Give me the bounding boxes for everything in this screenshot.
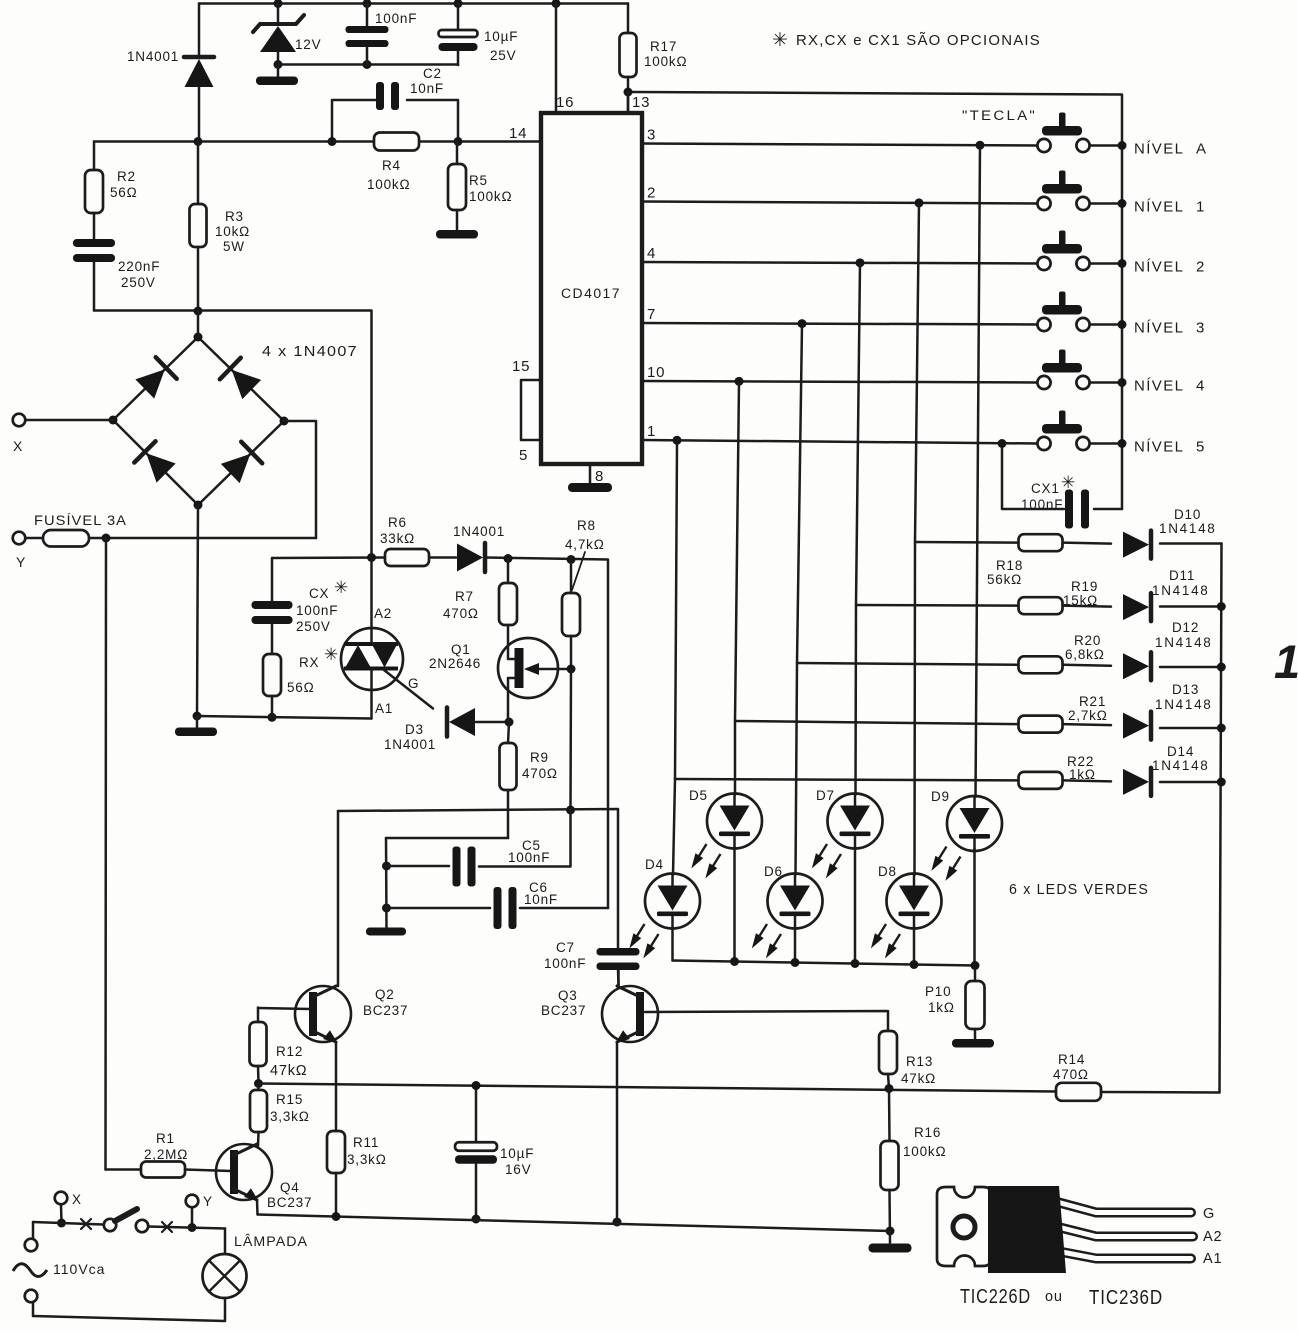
svg-text:100nF: 100nF — [508, 850, 550, 865]
wire lamp bottom return — [33, 1316, 225, 1321]
resistor R19 15kΩ — [1019, 597, 1063, 614]
svg-text:D4: D4 — [645, 857, 664, 872]
capacitor 10uF 16V electrolytic — [455, 1086, 497, 1220]
junction dot zener top — [274, 0, 283, 8]
svg-text:R19: R19 — [1071, 579, 1098, 594]
diode D13 1N4148 — [1123, 712, 1151, 740]
wire key 4 to bus — [1090, 381, 1122, 384]
diode 1N4001 series (phase) — [457, 543, 608, 908]
svg-text:470Ω: 470Ω — [522, 766, 558, 781]
svg-text:100kΩ: 100kΩ — [903, 1144, 946, 1159]
svg-text:2,7kΩ: 2,7kΩ — [1068, 708, 1108, 723]
svg-text:56Ω: 56Ω — [110, 185, 138, 200]
svg-text:NÍVEL: NÍVEL — [1134, 141, 1184, 158]
junction dot Q3 emitter bus — [613, 1218, 622, 1227]
wire Y lamp lead — [191, 1207, 194, 1227]
svg-text:5: 5 — [519, 447, 528, 464]
junction dot zener bottom — [274, 60, 283, 69]
svg-text:3,3kΩ: 3,3kΩ — [347, 1152, 387, 1167]
junction dot C5 right / emitter — [566, 806, 575, 815]
wire X lamp to switch line — [60, 1204, 63, 1223]
transistor Q3 BC237 — [602, 986, 658, 1048]
svg-text:R14: R14 — [1058, 1052, 1085, 1067]
junction dot key 4 bus — [1118, 378, 1127, 387]
svg-text:56kΩ: 56kΩ — [987, 572, 1022, 587]
svg-text:3: 3 — [1196, 320, 1205, 337]
junction dot bridge column top — [194, 307, 203, 316]
AC source 110Vca terminals — [25, 1222, 38, 1316]
capacitor C7 100nF — [597, 948, 640, 985]
junction dot pin 1 column — [673, 436, 682, 445]
svg-text:1N4001: 1N4001 — [127, 49, 179, 64]
junction dot bus D7 — [851, 959, 860, 968]
svg-text:R3: R3 — [225, 209, 244, 224]
wire C5 C6 left column — [386, 837, 508, 840]
svg-text:D11: D11 — [1169, 568, 1195, 583]
svg-text:CX: CX — [309, 586, 329, 601]
wire column pin4/D7 — [856, 264, 861, 796]
svg-text:4,7kΩ: 4,7kΩ — [565, 537, 605, 552]
svg-text:BC237: BC237 — [541, 1003, 586, 1018]
transistor Q4 BC237 — [216, 1144, 272, 1206]
TRIAC package TIC226D — [937, 1186, 1193, 1273]
svg-text:16: 16 — [556, 94, 574, 111]
wire bias line (R12/R15 to R14) — [259, 1084, 1057, 1092]
diode 1N4001 (left rectifier to supply) — [184, 4, 214, 140]
LED D5 green — [687, 794, 762, 881]
svg-text:14: 14 — [509, 125, 527, 142]
svg-text:✳: ✳ — [324, 645, 338, 664]
svg-text:CX1: CX1 — [1031, 481, 1060, 496]
svg-text:D12: D12 — [1172, 620, 1199, 635]
svg-text:R4: R4 — [382, 158, 401, 173]
wire X to bridge — [25, 419, 113, 422]
wire Q3 base to R13 — [645, 1011, 888, 1031]
resistor R17 100k — [620, 4, 637, 114]
pushbutton key NIVEL 2 — [1037, 231, 1089, 271]
wire emitter column down — [569, 669, 572, 810]
wire column pin7/D6 LED to bus — [794, 927, 797, 963]
svg-text:100nF: 100nF — [296, 603, 338, 618]
svg-text:R5: R5 — [469, 173, 488, 188]
ground below zener — [256, 65, 298, 86]
junction dot pin 2 column — [915, 198, 924, 207]
svg-text:1N4148: 1N4148 — [1155, 635, 1213, 650]
svg-text:A: A — [1196, 141, 1207, 158]
svg-text:10: 10 — [647, 364, 665, 381]
svg-text:Y: Y — [203, 1194, 213, 1209]
resistor R7 470 — [499, 559, 517, 626]
svg-text:220nF: 220nF — [118, 259, 160, 274]
svg-text:1kΩ: 1kΩ — [1069, 767, 1096, 782]
wire column pin7/D6 — [796, 325, 803, 876]
svg-text:2N2646: 2N2646 — [429, 656, 481, 671]
svg-text:1N4148: 1N4148 — [1152, 583, 1210, 598]
note RX CX CX1 optional — [772, 30, 1041, 51]
svg-text:8: 8 — [595, 468, 604, 485]
junction dot bus D9/P10 — [971, 961, 980, 970]
svg-text:2: 2 — [1196, 259, 1205, 276]
junction dot C2 right — [454, 137, 463, 146]
svg-text:R17: R17 — [650, 39, 677, 54]
capacitor 100nF (supply filter) — [346, 4, 389, 65]
svg-text:✳: ✳ — [772, 30, 788, 51]
fuse FUSIVEL 3A — [25, 530, 316, 547]
junction dot R16 bus — [886, 1227, 895, 1236]
wire Q2 emitter to R11 — [335, 1042, 338, 1131]
junction dot pin 3 column — [976, 141, 985, 150]
svg-text:470Ω: 470Ω — [1053, 1067, 1089, 1082]
junction dot R8 top — [567, 555, 576, 564]
junction dot key 5 bus — [1118, 439, 1127, 448]
junction dot Y switch — [188, 1223, 197, 1232]
wire pin 16 — [555, 4, 558, 114]
junction dot 10uF bottom — [472, 1215, 481, 1224]
svg-text:FUSÍVEL 3A: FUSÍVEL 3A — [34, 512, 127, 528]
junction dot R12 R15 — [254, 1079, 263, 1088]
junction dot bus D6 — [791, 958, 800, 967]
svg-text:4: 4 — [1196, 378, 1205, 395]
svg-text:R8: R8 — [577, 518, 596, 533]
svg-text:5W: 5W — [223, 239, 245, 254]
wire bridge bottom column — [197, 505, 198, 716]
wire key 3 to bus — [1090, 323, 1122, 326]
svg-text:R9: R9 — [530, 750, 549, 765]
svg-text:1: 1 — [647, 423, 656, 440]
resistor R18 56kΩ — [1019, 534, 1063, 551]
pushbutton key NIVEL 1 — [1037, 171, 1089, 211]
wire right bus (diode cathodes to R14) — [1220, 544, 1222, 1093]
ground below R16 — [869, 1244, 912, 1253]
svg-text:CD4017: CD4017 — [561, 286, 621, 301]
svg-text:13: 13 — [632, 94, 650, 111]
svg-text:D6: D6 — [764, 864, 783, 879]
svg-text:1: 1 — [1196, 199, 1205, 216]
capacitor CX 100nF 250V (optional) — [252, 558, 293, 654]
svg-text:10µF: 10µF — [500, 1146, 534, 1161]
wire A1 line — [197, 716, 372, 719]
pushbutton key NIVEL 3 — [1037, 292, 1089, 332]
junction dot right bus — [1217, 663, 1226, 672]
ground below C5/C6 — [366, 928, 406, 936]
svg-text:100nF: 100nF — [375, 11, 417, 26]
wire R8 label pointer — [572, 552, 585, 590]
junction dot key A bus — [1118, 141, 1127, 150]
svg-text:1kΩ: 1kΩ — [928, 1000, 955, 1015]
svg-text:R21: R21 — [1079, 694, 1106, 709]
transistor Q1 2N2646 UJT — [498, 625, 570, 722]
wire column pin2/D8 LED to bus — [913, 927, 916, 965]
svg-text:A1: A1 — [375, 701, 393, 716]
resistor R5 100k — [448, 142, 466, 232]
svg-text:G: G — [1203, 1206, 1215, 1222]
wire Q3 emitter column — [616, 1042, 619, 1222]
svg-text:10nF: 10nF — [410, 81, 444, 96]
wire R18 row — [915, 541, 1018, 544]
svg-text:R18: R18 — [996, 558, 1023, 573]
junction dot right bus — [1217, 778, 1226, 787]
resistor R12 47k — [250, 1008, 267, 1084]
svg-text:6,8kΩ: 6,8kΩ — [1065, 647, 1105, 662]
wire column pin1/D4 — [673, 444, 677, 876]
resistor R15 3.3k — [250, 1084, 267, 1147]
resistor R4 100k — [374, 133, 419, 151]
junction dot bus D8 — [910, 960, 919, 969]
wire column pin3/D9 LED to bus — [973, 849, 976, 966]
wire main node line y142 (pin14 net) — [94, 140, 374, 143]
junction dot right bus — [1217, 724, 1226, 733]
svg-text:6 x LEDS VERDES: 6 x LEDS VERDES — [1009, 882, 1149, 898]
junction dot UJT emitter — [567, 665, 576, 674]
svg-text:Q1: Q1 — [451, 642, 471, 657]
svg-text:25V: 25V — [490, 48, 516, 63]
junction dot R4 line left — [194, 137, 203, 146]
bridge rectifier 4 x 1N4007 — [109, 333, 289, 510]
svg-text:47kΩ: 47kΩ — [270, 1063, 307, 1079]
svg-text:110Vca: 110Vca — [53, 1261, 105, 1277]
connection cross mark X — [81, 1219, 91, 1229]
svg-text:P10: P10 — [925, 984, 951, 999]
wire pin 7 to key NIVEL 3 — [642, 323, 1037, 325]
svg-text:X: X — [13, 438, 23, 454]
LED D6 green — [748, 874, 823, 961]
junction dot key 3 bus — [1118, 320, 1127, 329]
pushbutton key NIVEL A — [1037, 113, 1089, 153]
wire pin 10 to key NIVEL 4 — [642, 381, 1037, 383]
svg-text:Q2: Q2 — [375, 987, 395, 1002]
resistor R1 2.2M — [106, 1162, 232, 1178]
wire pin13 node to key bus — [628, 92, 1122, 509]
diode D12 1N4148 — [1123, 652, 1151, 680]
svg-text:D13: D13 — [1172, 682, 1199, 697]
wire column pin2/D8 — [915, 204, 920, 876]
wire pin 2 to key NIVEL 1 — [642, 202, 1037, 204]
wire key 1 to bus — [1090, 202, 1122, 205]
wire column pin3/D9 — [976, 146, 981, 798]
svg-text:100kΩ: 100kΩ — [644, 54, 687, 69]
resistor R11 3.3k — [327, 1131, 345, 1217]
wire emitter node line1 — [338, 809, 618, 949]
junction dot 10uF top — [454, 0, 463, 8]
svg-text:Q4: Q4 — [280, 1180, 300, 1195]
ground below R5 — [436, 230, 478, 239]
ground below bridge column — [175, 716, 217, 736]
svg-text:RX: RX — [299, 655, 319, 670]
terminal Y lamp side — [186, 1195, 199, 1208]
junction dot R9 top / B1 — [505, 718, 514, 727]
svg-text:BC237: BC237 — [363, 1003, 408, 1018]
svg-text:7: 7 — [647, 306, 656, 323]
IC U1 CD4017 outline — [541, 113, 642, 464]
junction dot pin13 — [624, 88, 633, 97]
svg-text:250V: 250V — [121, 275, 156, 290]
ground below P10 — [952, 1039, 994, 1048]
svg-text:ou: ou — [1045, 1289, 1063, 1305]
connection cross mark Y — [162, 1222, 172, 1232]
svg-text:100kΩ: 100kΩ — [469, 189, 512, 204]
pin15-pin5 jumper wire — [521, 380, 541, 440]
svg-text:R13: R13 — [906, 1054, 933, 1069]
svg-text:R12: R12 — [276, 1044, 303, 1059]
top supply rail wire — [199, 2, 628, 5]
wire pin13 stub to box — [627, 92, 630, 113]
terminal X lamp side — [55, 1192, 68, 1205]
svg-text:D3: D3 — [405, 722, 424, 737]
wire key A to bus — [1090, 144, 1122, 147]
diode D3 1N4001 (gate) — [447, 708, 509, 737]
ground below pin 8 — [568, 483, 612, 492]
svg-text:D8: D8 — [878, 864, 897, 879]
junction dot RX bottom A1 line — [268, 713, 277, 722]
wire column pin1/D4 LED to bus — [671, 927, 674, 961]
svg-text:D14: D14 — [1167, 744, 1194, 759]
resistor R8 4.7k — [562, 560, 580, 670]
pushbutton key NIVEL 4 — [1037, 350, 1089, 390]
capacitor C2 10nF — [332, 82, 458, 142]
svg-text:100nF: 100nF — [544, 956, 586, 971]
resistor R14 470 — [1056, 1083, 1101, 1101]
svg-text:D9: D9 — [931, 789, 950, 804]
wire bridge right vertex to fuse line — [284, 421, 316, 538]
trimpot P10 1k — [966, 966, 985, 1041]
svg-text:10nF: 10nF — [524, 892, 558, 907]
svg-text:2: 2 — [647, 185, 656, 202]
resistor R3 10k 5W — [190, 142, 207, 312]
svg-text:5: 5 — [1196, 439, 1205, 456]
svg-text:BC237: BC237 — [267, 1195, 312, 1210]
svg-text:A1: A1 — [1203, 1251, 1222, 1267]
triac (internal symbol) — [341, 558, 403, 719]
wire Q2 collector column — [337, 811, 340, 986]
wire R22 row — [675, 779, 1018, 780]
svg-text:1N4001: 1N4001 — [384, 737, 436, 752]
junction dot CX1 left — [998, 439, 1007, 448]
resistor R22 1kΩ — [1019, 772, 1063, 789]
svg-text:"TECLA": "TECLA" — [962, 108, 1037, 123]
svg-text:✳: ✳ — [1061, 473, 1075, 492]
svg-text:3,3kΩ: 3,3kΩ — [270, 1109, 310, 1124]
resistor R9 470 — [500, 722, 517, 838]
switch interruptor with lever — [33, 1209, 225, 1232]
svg-text:LÂMPADA: LÂMPADA — [234, 1233, 308, 1249]
svg-text:C7: C7 — [556, 940, 575, 955]
wire pin 1 to key NIVEL 5 — [642, 440, 1037, 444]
svg-text:NÍVEL: NÍVEL — [1134, 378, 1184, 395]
wire bridge top to node — [197, 311, 200, 337]
svg-text:33kΩ: 33kΩ — [380, 531, 415, 546]
wire emitter ground bus — [258, 1215, 891, 1232]
junction dot fuse line — [102, 534, 111, 543]
junction dot key 1 bus — [1118, 199, 1127, 208]
AC sine symbol — [13, 1264, 47, 1277]
svg-text:✳: ✳ — [334, 578, 348, 597]
junction dot X switch — [57, 1219, 66, 1228]
junction dot R11 bus — [332, 1212, 341, 1221]
wire LED cathode bus — [673, 961, 976, 966]
svg-text:100kΩ: 100kΩ — [367, 177, 410, 192]
svg-text:R2: R2 — [117, 169, 136, 184]
junction dot pin 10 column — [735, 377, 744, 386]
resistor R21 2,7kΩ — [1019, 716, 1063, 733]
junction dot C2 left — [328, 137, 337, 146]
wire R21 row — [735, 721, 1018, 724]
svg-text:16V: 16V — [505, 1162, 531, 1177]
resistor R13 47k — [879, 1031, 897, 1088]
diode D10 1N4148 — [1123, 531, 1151, 559]
junction dot right bus — [1217, 602, 1226, 611]
svg-text:1N4001: 1N4001 — [453, 524, 505, 539]
svg-text:1: 1 — [1274, 635, 1298, 688]
wire column pin10/D5 LED to bus — [733, 847, 736, 962]
junction dot pin 7 column — [798, 319, 807, 328]
junction dot triac column phase line — [367, 553, 376, 562]
capacitor 10uF 25V electrolytic — [439, 4, 478, 66]
svg-text:470Ω: 470Ω — [443, 606, 479, 621]
svg-text:D7: D7 — [816, 788, 835, 803]
svg-text:D10: D10 — [1174, 507, 1201, 522]
wire column pin10/D5 — [735, 383, 739, 796]
svg-text:NÍVEL: NÍVEL — [1134, 199, 1184, 216]
capacitor C6 10nF — [387, 887, 609, 929]
wire triac gate to D3 — [384, 670, 433, 709]
diode D14 1N4148 — [1123, 768, 1151, 796]
wire R6 phase line — [272, 556, 385, 559]
wire Q4 emitter to bus — [256, 1200, 259, 1215]
wire Q2 base to R12 — [258, 1008, 310, 1009]
zener diode 12V — [253, 4, 304, 65]
junction dot bus D5 — [730, 957, 739, 966]
wire zener node line — [278, 63, 458, 66]
junction dot A1 line left — [193, 712, 202, 721]
terminal Y — [13, 532, 26, 545]
capacitor C5 100nF — [387, 810, 571, 887]
svg-text:R11: R11 — [353, 1135, 379, 1150]
svg-text:R6: R6 — [388, 515, 407, 530]
svg-text:15: 15 — [512, 358, 530, 375]
LED D7 green — [808, 794, 883, 881]
junction dot pin 4 column — [856, 258, 865, 267]
wire pin 3 to key NIVEL A — [642, 144, 1037, 146]
wire pin 4 to key NIVEL 2 — [642, 262, 1037, 264]
svg-text:R20: R20 — [1074, 633, 1101, 648]
svg-text:C2: C2 — [423, 66, 442, 81]
svg-text:R15: R15 — [276, 1092, 303, 1107]
svg-text:56Ω: 56Ω — [287, 680, 315, 695]
junction dot 100nF top — [363, 0, 372, 8]
junction dot R13 bottom — [885, 1084, 894, 1093]
resistor R16 100k — [881, 1089, 899, 1244]
wire Q4 collector to R15 — [257, 1145, 258, 1146]
svg-text:NÍVEL: NÍVEL — [1134, 439, 1184, 456]
svg-text:NÍVEL: NÍVEL — [1134, 259, 1184, 276]
svg-text:4 x 1N4007: 4 x 1N4007 — [262, 344, 358, 360]
svg-text:TIC226D: TIC226D — [960, 1286, 1031, 1308]
resistor R2 56 — [85, 142, 103, 240]
transistor Q2 BC237 — [295, 986, 351, 1048]
diode D11 1N4148 — [1123, 593, 1151, 621]
svg-text:A2: A2 — [1203, 1229, 1222, 1245]
wire fuse column down to R1 — [104, 538, 107, 1170]
svg-text:R1: R1 — [156, 1131, 175, 1146]
svg-text:3: 3 — [647, 127, 656, 144]
wire R20 row — [797, 663, 1018, 665]
svg-text:D5: D5 — [689, 788, 708, 803]
svg-text:10µF: 10µF — [484, 29, 518, 44]
svg-text:47kΩ: 47kΩ — [901, 1071, 936, 1086]
svg-text:4: 4 — [647, 245, 656, 262]
svg-text:NÍVEL: NÍVEL — [1134, 320, 1184, 337]
wire key 2 to bus — [1090, 262, 1122, 265]
